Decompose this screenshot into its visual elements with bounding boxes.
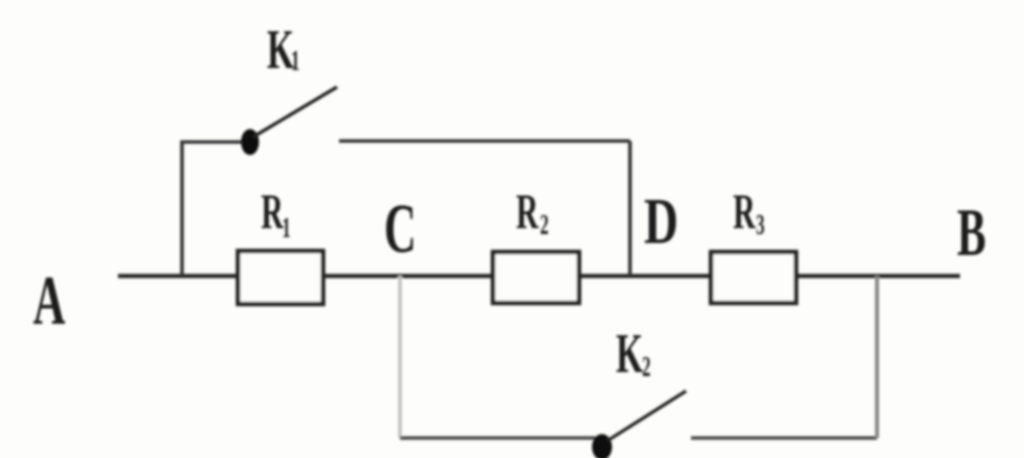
svg-text:1: 1 xyxy=(282,213,291,244)
svg-text:1: 1 xyxy=(291,46,300,77)
svg-text:R: R xyxy=(261,184,284,239)
svg-text:R: R xyxy=(733,184,756,239)
svg-text:B: B xyxy=(957,195,986,270)
svg-text:2: 2 xyxy=(642,352,651,383)
svg-text:D: D xyxy=(644,186,678,258)
svg-text:2: 2 xyxy=(540,210,549,241)
svg-text:A: A xyxy=(33,262,65,339)
svg-text:K: K xyxy=(616,323,643,386)
svg-text:K: K xyxy=(267,19,294,82)
svg-text:C: C xyxy=(384,190,416,267)
svg-text:R: R xyxy=(516,184,539,239)
svg-text:3: 3 xyxy=(756,210,765,241)
